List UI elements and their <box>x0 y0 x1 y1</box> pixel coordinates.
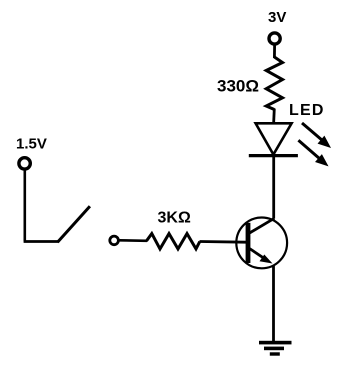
svg-text:330Ω: 330Ω <box>217 77 259 96</box>
svg-text:LED: LED <box>289 102 325 119</box>
terminal (3V) <box>269 33 280 44</box>
terminal (1.5V) <box>19 158 30 169</box>
wire: 3V terminal to resistor R1 <box>273 46 276 59</box>
svg-text:1.5V: 1.5V <box>16 136 47 153</box>
resistor R2 3K ohm (horizontal zigzag) <box>146 234 199 249</box>
svg-text:3V: 3V <box>268 9 286 26</box>
LED emission arrow 1 <box>302 123 330 147</box>
wire: resistor R2 to transistor base <box>200 240 247 243</box>
wire: resistor R1 to LED anode <box>272 109 275 125</box>
terminal (switch output) <box>110 236 119 245</box>
transistor Q1 body circle <box>236 218 287 269</box>
LED D1 triangle (anode) <box>256 123 292 154</box>
wire: 1.5V terminal down <box>23 171 26 242</box>
transistor Q1 emitter stroke with arrow <box>250 249 269 262</box>
transistor Q1 base bar <box>246 223 251 263</box>
resistor R1 330 ohm (vertical zigzag) <box>266 57 282 110</box>
svg-text:3KΩ: 3KΩ <box>158 210 191 227</box>
wire: terminal to resistor R2 <box>120 239 148 242</box>
LED emission arrow 2 <box>298 140 327 165</box>
transistor Q1 collector stroke <box>250 218 275 233</box>
ground symbol <box>259 341 292 356</box>
wire: emitter to ground <box>272 266 275 342</box>
wire: horizontal to switch pivot <box>24 240 59 243</box>
LED D1 cathode bar <box>249 154 298 157</box>
wire: LED cathode to transistor collector <box>272 156 275 219</box>
switch SW1 blade (open) <box>58 206 90 242</box>
